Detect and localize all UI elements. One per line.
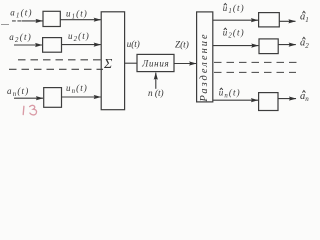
detector box Dn bbox=[259, 93, 278, 111]
wire D2 output bbox=[278, 44, 296, 46]
wire separator to detector D2 bbox=[213, 45, 258, 47]
wire summator to line box bbox=[125, 62, 137, 64]
node a-hat-2 label bbox=[300, 37, 309, 50]
stray dash mark left edge bbox=[1, 24, 9, 26]
dashed continuation line right upper bbox=[214, 61, 298, 63]
wire separator to detector Dn bbox=[213, 99, 258, 101]
dashed continuation line right lower bbox=[214, 71, 296, 73]
wire noise n(t) into line box bbox=[155, 73, 157, 89]
svg-text:Линия: Линия bbox=[141, 59, 169, 69]
line box (Liniya) bbox=[137, 54, 174, 71]
wire a1 input (leading dashes) bbox=[12, 20, 21, 22]
svg-text:u(t): u(t) bbox=[127, 39, 140, 49]
modulator box Mn bbox=[44, 88, 62, 108]
dashed continuation line left upper bbox=[18, 59, 105, 61]
dashed continuation line left lower bbox=[9, 68, 103, 70]
wire an into modulator box Mn bbox=[14, 97, 43, 99]
wire D1 output bbox=[279, 20, 295, 22]
summator block bbox=[101, 12, 124, 110]
svg-text:Σ: Σ bbox=[103, 57, 113, 72]
node a-hat-n label bbox=[300, 91, 309, 104]
wire a2 into modulator box M2 bbox=[14, 44, 42, 46]
wire Dn output bbox=[278, 98, 296, 100]
wire separator to detector D1 bbox=[213, 19, 258, 21]
separator block (Razdelenie) bbox=[197, 12, 213, 102]
modulator box M2 bbox=[43, 38, 62, 53]
svg-text:Разделение: Разделение bbox=[199, 32, 210, 102]
red pencil mark 1 bbox=[22, 106, 25, 114]
wire a1 into modulator box M1 bbox=[22, 20, 43, 22]
modulator box M1 bbox=[43, 11, 60, 26]
detector box D2 bbox=[259, 39, 278, 54]
svg-text:Z(t): Z(t) bbox=[175, 39, 189, 49]
svg-text:n (t): n (t) bbox=[148, 88, 164, 98]
red pencil mark 3 bbox=[30, 105, 37, 115]
wire line box to separator bbox=[174, 63, 196, 65]
node a-hat-1 label bbox=[300, 11, 309, 24]
detector box D1 bbox=[259, 13, 280, 27]
wire u1 to summator bbox=[60, 19, 101, 21]
wire un to summator bbox=[62, 96, 101, 98]
wire u2 to summator bbox=[62, 44, 101, 46]
